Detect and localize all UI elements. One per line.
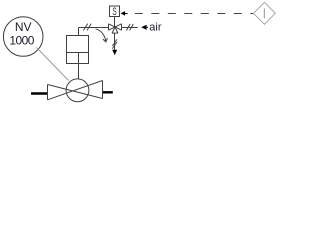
interlock diamond [254, 2, 276, 24]
stem from S box to 3-way valve [114, 17, 116, 28]
pipe right [103, 91, 113, 93]
air supply line [122, 27, 138, 29]
air arrowhead [141, 25, 146, 30]
actuator piston line [67, 52, 89, 54]
vent arrowhead down [112, 50, 117, 55]
3-way valve body [109, 24, 122, 33]
pneumatic line slashes [84, 24, 92, 31]
pneumatic tube down to actuator [78, 28, 80, 36]
actuator cylinder [67, 36, 89, 64]
valve stem [78, 53, 80, 80]
tag balloon NV 1000 [3, 17, 43, 57]
dashed signal line to interlock [135, 13, 254, 15]
signal arrowhead into S box [121, 11, 126, 16]
svg-text:air: air [149, 22, 162, 34]
fail-action curved arrow [96, 29, 106, 42]
pipe left [31, 92, 48, 94]
vent slashes [112, 39, 117, 48]
air line slashes [126, 24, 133, 31]
svg-text:1000: 1000 [9, 33, 34, 47]
svg-text:NV: NV [15, 20, 32, 34]
leader line from balloon to valve [37, 48, 69, 81]
valve ball circle [66, 79, 89, 102]
vent line down [114, 33, 116, 50]
interlock I bar [263, 8, 265, 18]
signal arrow tail [125, 13, 128, 15]
svg-text:S: S [112, 6, 116, 18]
pneumatic line from 3-way valve to actuator [79, 27, 109, 29]
solenoid S box [110, 6, 120, 17]
valve V body (bowtie) [48, 81, 103, 100]
3-way valve center dot [114, 26, 116, 28]
